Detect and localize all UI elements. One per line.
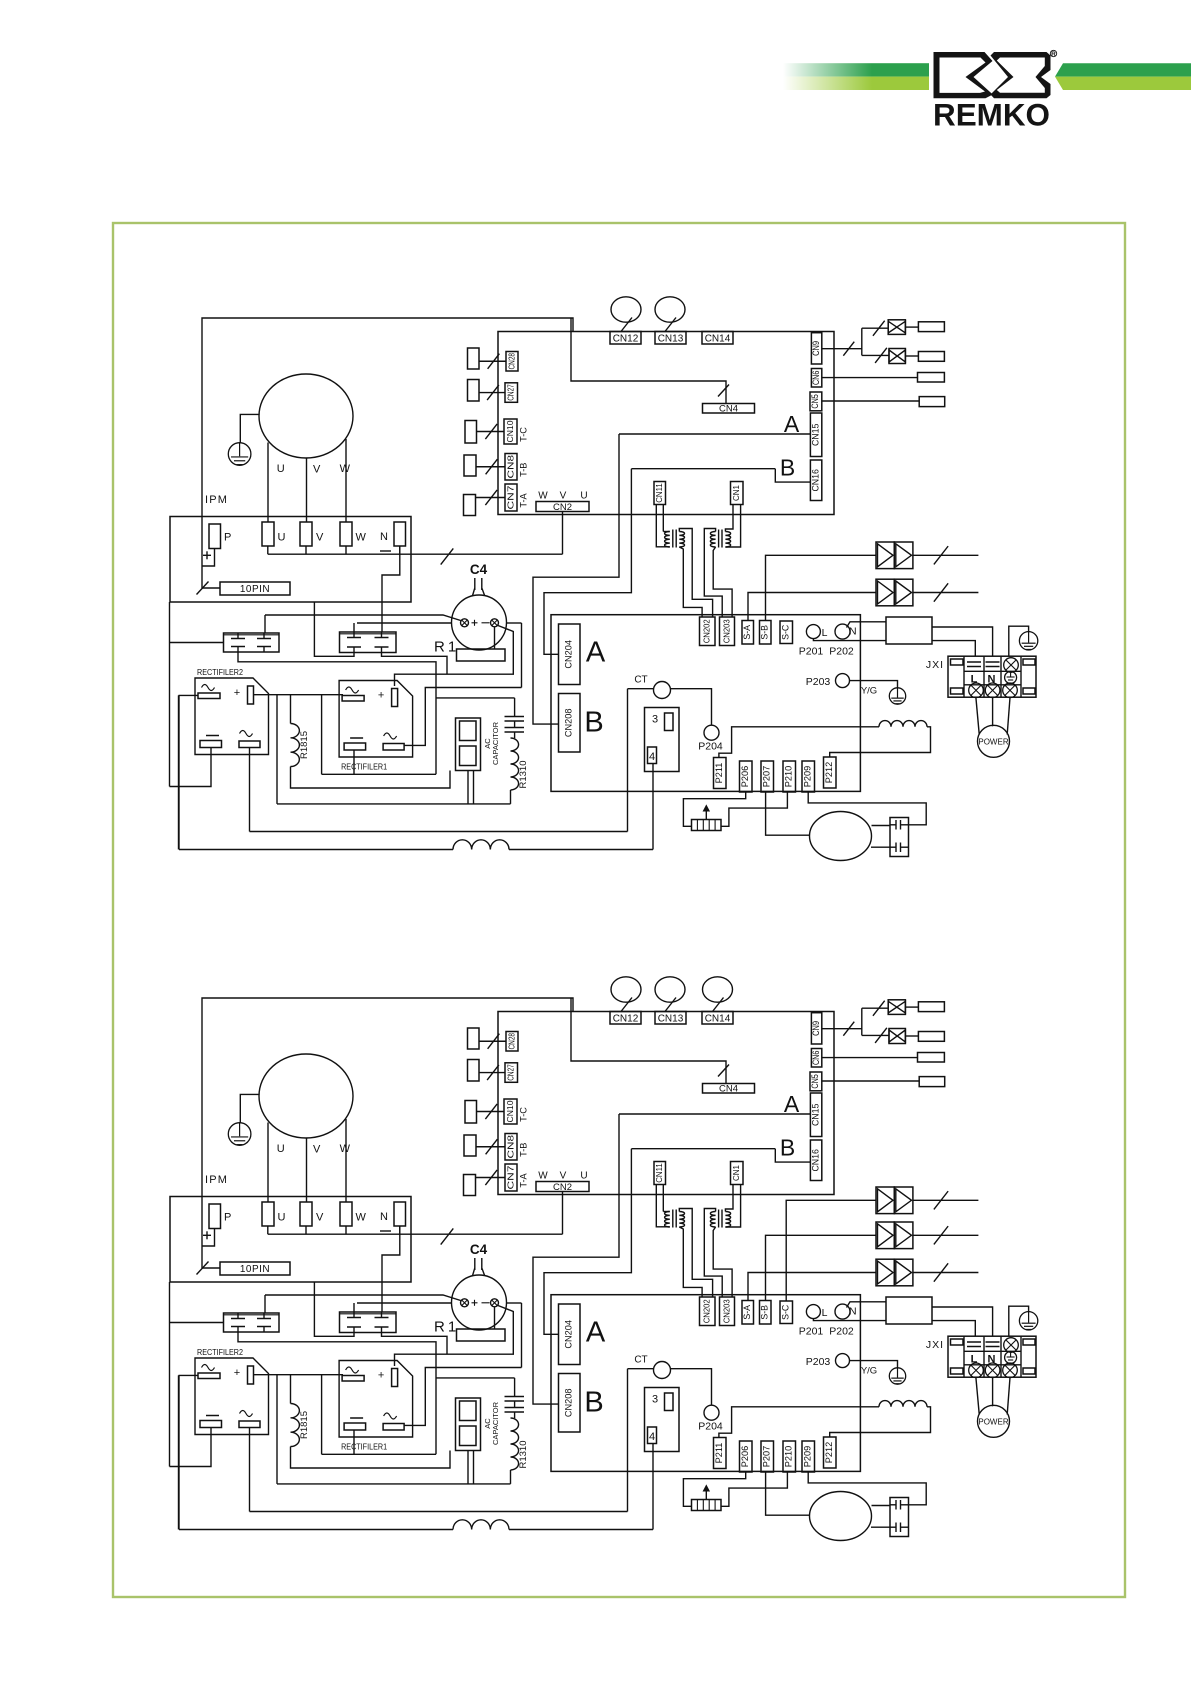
svg-text:REMKO: REMKO <box>933 97 1050 133</box>
svg-text:R: R <box>1051 51 1056 58</box>
